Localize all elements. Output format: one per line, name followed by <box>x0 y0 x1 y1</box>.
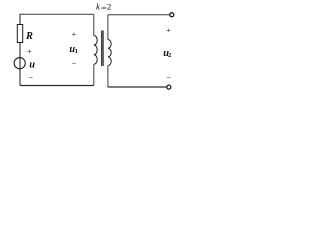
svg-text:−: − <box>166 72 171 82</box>
wire secondary bottom vertical <box>107 66 109 87</box>
svg-text:−: − <box>28 72 33 82</box>
wire bottom-left horizontal <box>20 85 94 87</box>
terminal top-right <box>170 13 174 17</box>
terminal bottom-right <box>167 85 171 89</box>
svg-text:−: − <box>72 58 77 68</box>
svg-text:R: R <box>25 31 33 42</box>
wire left vertical top <box>19 14 21 25</box>
wire top-left horizontal <box>20 13 94 15</box>
svg-text:1: 1 <box>75 48 78 55</box>
svg-text:+: + <box>166 25 171 35</box>
svg-text:2: 2 <box>107 1 111 11</box>
svg-text:+: + <box>72 29 77 39</box>
transformer core line left <box>101 31 103 67</box>
svg-text:+: + <box>27 46 32 56</box>
wire bottom-right horizontal <box>108 86 167 88</box>
wire resistor to source (passes through source) <box>19 43 21 86</box>
svg-text:u: u <box>29 59 35 70</box>
wire primary top vertical <box>93 14 95 35</box>
primary winding L1 <box>94 36 97 65</box>
voltage source u <box>14 58 25 69</box>
wire top-right horizontal <box>108 14 170 16</box>
wire primary bottom vertical <box>93 64 95 85</box>
resistor R <box>17 25 22 43</box>
svg-text:k: k <box>96 1 101 11</box>
wire secondary top vertical <box>107 15 109 40</box>
secondary winding L2 <box>108 40 111 66</box>
transformer core line right <box>102 31 104 67</box>
svg-text:2: 2 <box>168 52 171 59</box>
